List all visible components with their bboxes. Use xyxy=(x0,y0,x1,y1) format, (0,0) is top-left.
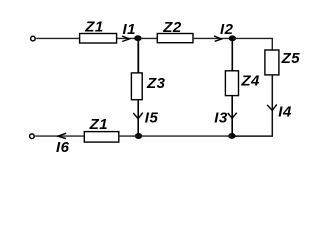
wire Z4 down to node D xyxy=(231,96,233,137)
svg-text:Z1: Z1 xyxy=(89,116,109,133)
wire Z1 to node A xyxy=(117,37,138,39)
wire T2 to Z1 bottom xyxy=(35,135,84,137)
arrow I2 xyxy=(214,36,221,41)
resistor Z4 xyxy=(225,71,238,96)
svg-text:I4: I4 xyxy=(278,103,292,120)
svg-text:I3: I3 xyxy=(214,110,228,127)
arrow I3 xyxy=(228,113,237,119)
wire Z2 to node B xyxy=(193,37,232,39)
wire node B to top right corner and down to Z5 xyxy=(232,38,272,50)
wire node A down to Z3 xyxy=(137,38,139,73)
arrow I1 xyxy=(122,36,129,42)
resistor Z2 xyxy=(157,34,193,43)
wire node B down to Z4 xyxy=(231,38,233,70)
arrow I4 xyxy=(267,104,277,110)
resistor Z1 (bottom) xyxy=(84,132,119,143)
svg-text:Z2: Z2 xyxy=(162,19,182,36)
svg-text:Z1: Z1 xyxy=(84,18,104,35)
arrow I5 xyxy=(133,113,143,119)
svg-text:Z4: Z4 xyxy=(240,73,260,90)
wire T1 to Z1 xyxy=(36,37,79,39)
wire Z3 down to node C xyxy=(137,100,139,136)
resistor Z3 xyxy=(131,73,142,100)
svg-text:I1: I1 xyxy=(123,21,137,38)
wire node A to Z2 xyxy=(138,37,157,39)
wire Z1 bottom to node C xyxy=(119,135,139,137)
resistor Z5 xyxy=(265,50,279,75)
svg-text:Z3: Z3 xyxy=(146,75,166,92)
svg-text:I6: I6 xyxy=(56,139,70,156)
wire node C to node D xyxy=(139,135,232,137)
resistor Z1 (top) xyxy=(80,34,117,44)
terminal T2 (bottom left) xyxy=(30,134,35,139)
terminal T1 (top left input) xyxy=(31,36,36,41)
svg-text:I5: I5 xyxy=(145,110,159,127)
arrow I6 xyxy=(58,133,66,138)
node B junction dot xyxy=(229,35,236,41)
node C junction dot xyxy=(135,133,142,139)
svg-text:Z5: Z5 xyxy=(281,50,301,67)
node A junction dot xyxy=(134,35,141,41)
node D junction dot xyxy=(228,133,235,139)
wire Z5 down to bottom corner xyxy=(232,75,272,136)
